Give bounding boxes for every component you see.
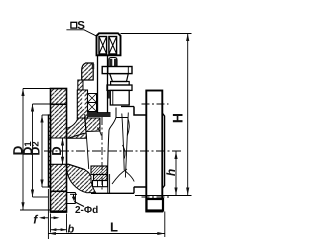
svg-text:2-Φd: 2-Φd [75, 205, 98, 216]
svg-text:D: D [49, 146, 64, 155]
svg-text:L: L [110, 220, 118, 235]
svg-text:h: h [164, 169, 178, 176]
svg-text:S: S [77, 20, 85, 32]
svg-text:b: b [68, 224, 75, 236]
svg-text:H: H [170, 113, 186, 123]
svg-text:D2: D2 [29, 141, 43, 155]
svg-text:f: f [33, 213, 38, 227]
